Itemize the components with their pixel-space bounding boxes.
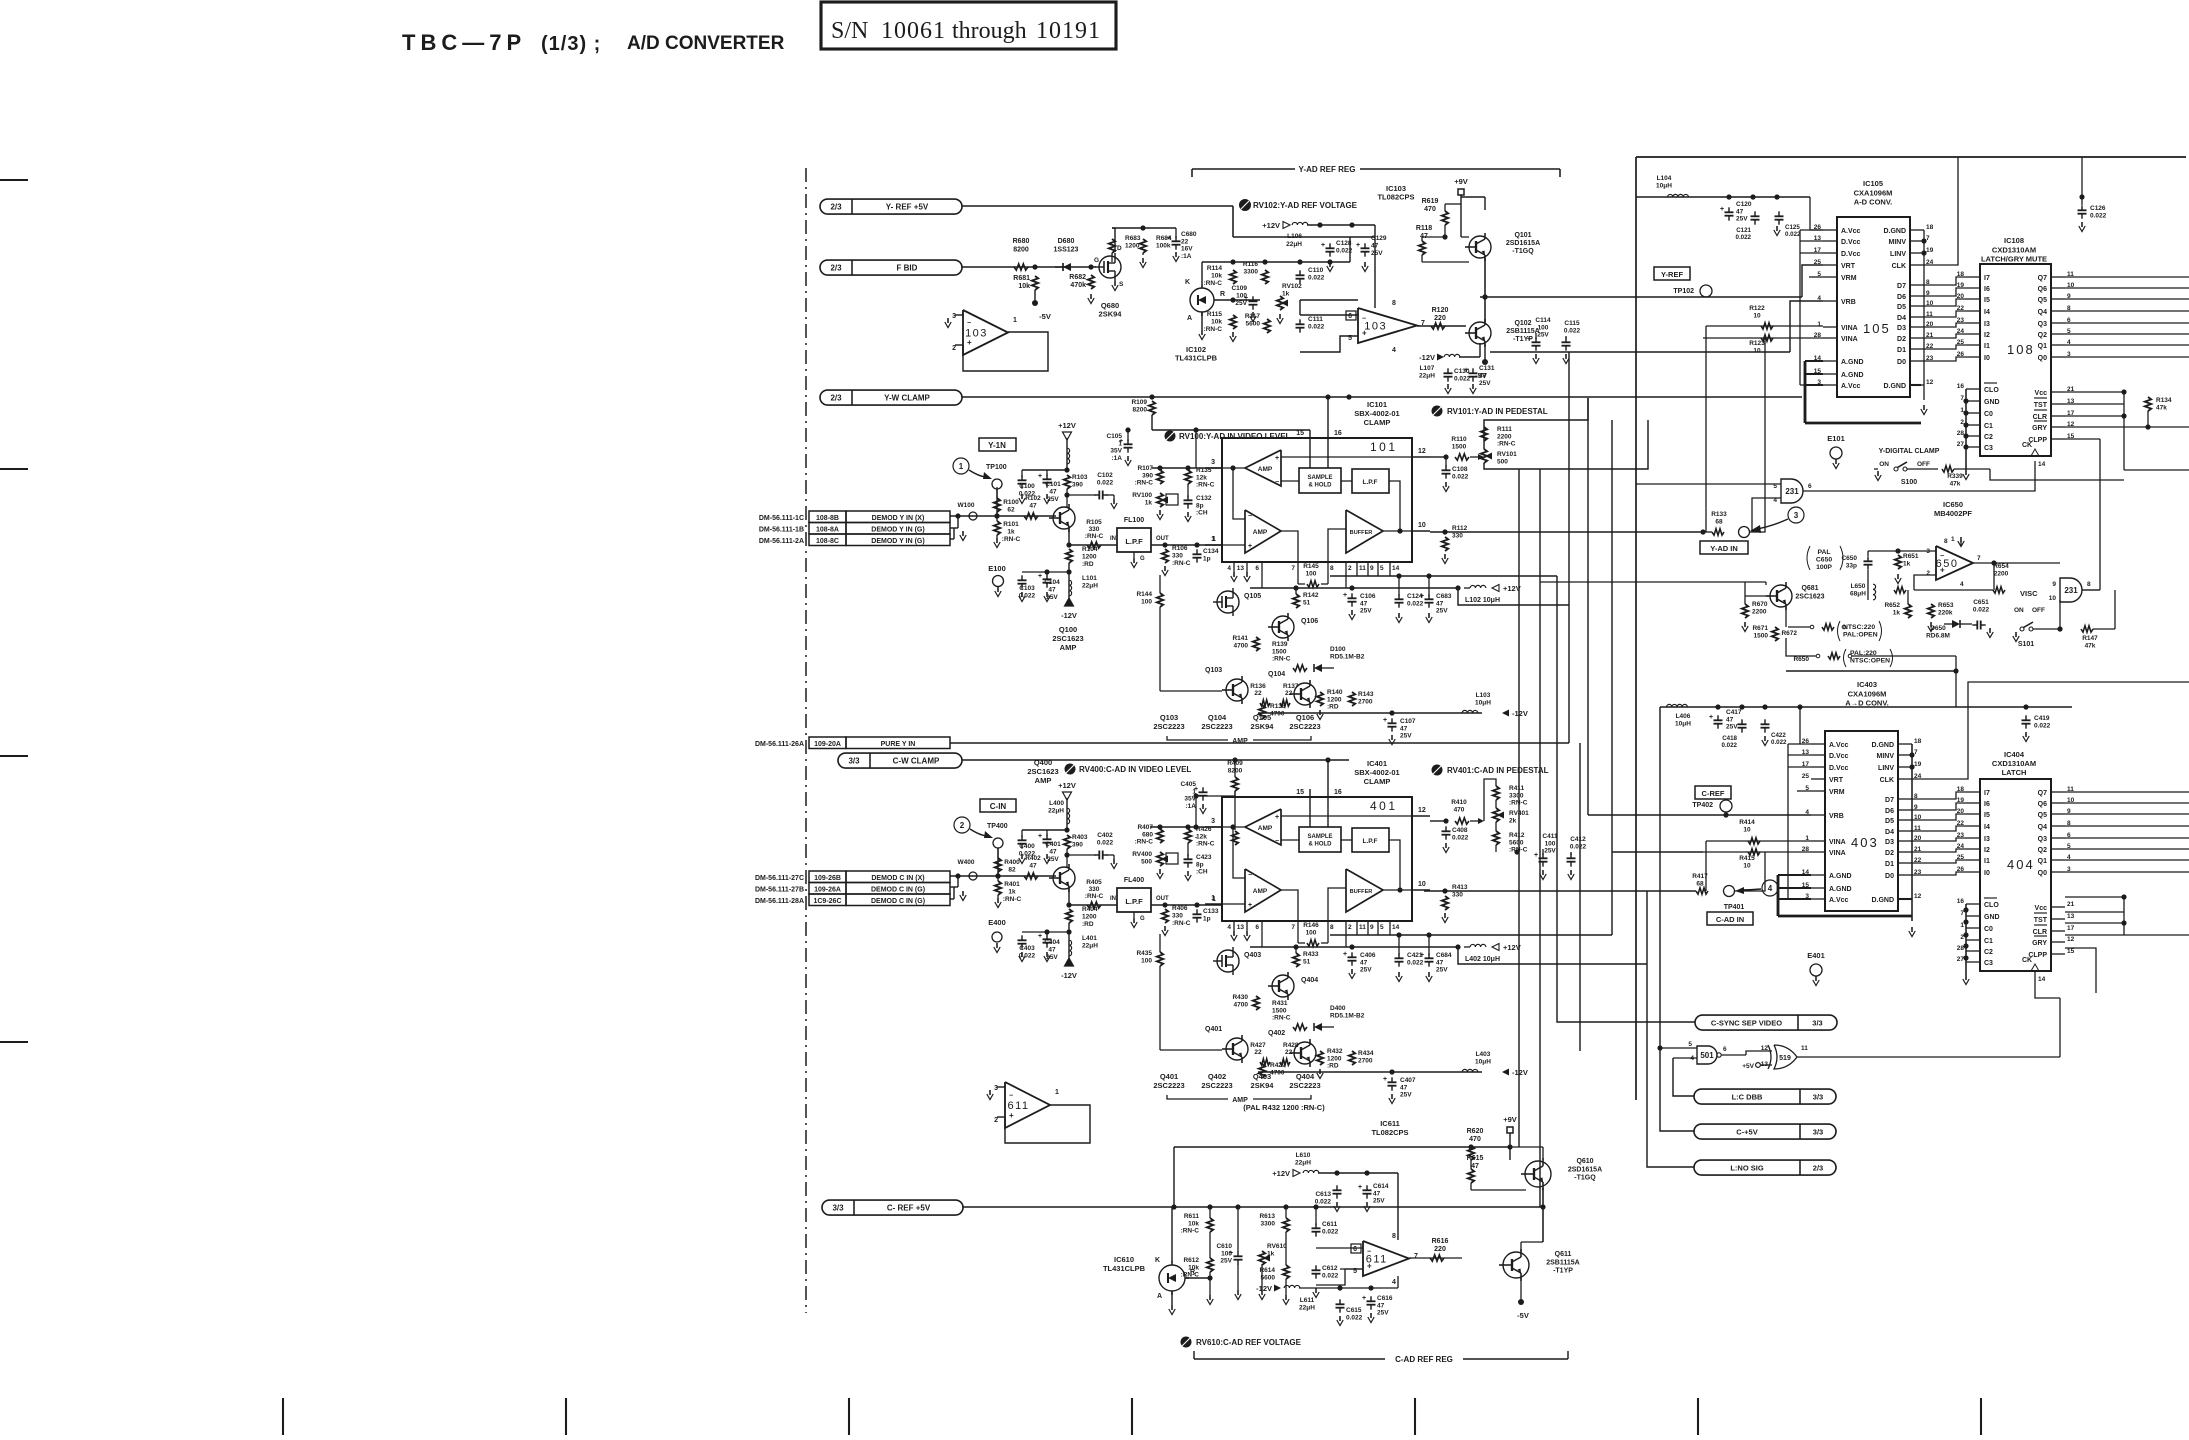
svg-text:AMP: AMP	[1253, 529, 1268, 536]
svg-text:R122: R122	[1749, 305, 1765, 312]
transistor Q610 2SD1615A	[1525, 1161, 1551, 1187]
svg-text:+: +	[1343, 951, 1347, 958]
svg-text:10k: 10k	[1018, 283, 1030, 290]
ground	[1164, 926, 1166, 931]
svg-text:D3: D3	[1885, 839, 1894, 846]
svg-text:2SC1623: 2SC1623	[1795, 594, 1824, 601]
svg-text:R144: R144	[1136, 591, 1152, 598]
svg-text:R100: R100	[1003, 499, 1019, 506]
ground	[2025, 732, 2027, 737]
resistor R615	[1468, 1169, 1474, 1183]
svg-text:3/3: 3/3	[832, 1204, 844, 1213]
svg-text::RN-C: :RN-C	[1196, 482, 1215, 489]
svg-text:25V: 25V	[1537, 332, 1549, 339]
svg-text:22: 22	[1181, 238, 1189, 245]
svg-text:VINA: VINA	[1829, 839, 1846, 846]
serial number box S/N 10061 through 10191	[821, 2, 1116, 49]
svg-text:1500: 1500	[1452, 443, 1467, 450]
ground	[1319, 710, 1321, 715]
svg-text:10k: 10k	[1211, 319, 1222, 326]
svg-text:C134: C134	[1203, 548, 1219, 555]
svg-text:C-IN: C-IN	[990, 802, 1007, 811]
svg-text:108: 108	[2007, 342, 2035, 357]
svg-text:DM-56.111-28A: DM-56.111-28A	[755, 898, 804, 905]
svg-text:I7: I7	[1984, 790, 1990, 797]
ground	[1570, 870, 1572, 875]
capacitor C134	[1193, 553, 1202, 555]
svg-text:R107: R107	[1137, 465, 1153, 472]
svg-text:I1: I1	[1984, 858, 1990, 865]
svg-text:Q3: Q3	[2038, 836, 2047, 843]
svg-text::RN-C: :RN-C	[1497, 441, 1516, 448]
connector L:NO SIG 2/3	[1694, 1160, 1836, 1175]
svg-text:DEMOD C IN (G): DEMOD C IN (G)	[871, 898, 925, 905]
wire PURE Y IN rail	[950, 742, 1569, 744]
wire data bus D7-D0	[1924, 277, 1966, 285]
svg-text:LINV: LINV	[1878, 765, 1894, 772]
svg-text:ON: ON	[2014, 607, 2024, 614]
svg-text:W400: W400	[958, 859, 975, 866]
svg-text:1p: 1p	[1203, 916, 1211, 923]
svg-text:D.GND: D.GND	[1883, 228, 1906, 235]
svg-text::RN-C: :RN-C	[1204, 326, 1223, 333]
svg-text:C- REF +5V: C- REF +5V	[887, 1204, 931, 1213]
svg-text:47: 47	[1049, 489, 1057, 496]
svg-text:C105: C105	[1106, 433, 1122, 440]
svg-text::1A: :1A	[1186, 803, 1197, 810]
svg-text:E101: E101	[1827, 434, 1845, 443]
svg-text:Q401: Q401	[1205, 1026, 1222, 1033]
ground	[1542, 870, 1544, 875]
resistor R400	[995, 858, 1001, 872]
resistor R619	[1442, 211, 1448, 225]
svg-text:+: +	[1383, 1076, 1387, 1083]
svg-text:CLR: CLR	[2033, 929, 2047, 936]
svg-text:D400: D400	[1330, 1005, 1346, 1012]
svg-text:Q402: Q402	[1268, 1030, 1285, 1037]
svg-text:3/3: 3/3	[1813, 1128, 1823, 1137]
svg-text:47k: 47k	[2085, 642, 2096, 649]
svg-text:0.022: 0.022	[1452, 473, 1469, 480]
ground	[1877, 471, 1879, 476]
svg-text:I6: I6	[1984, 286, 1990, 293]
svg-text:R120: R120	[1432, 307, 1449, 314]
svg-text:D2: D2	[1897, 336, 1906, 343]
svg-text:51: 51	[1303, 599, 1311, 606]
svg-text:-12V: -12V	[1419, 353, 1435, 362]
svg-text:8: 8	[1330, 565, 1334, 572]
svg-text:PAL:OPEN: PAL:OPEN	[1843, 632, 1878, 639]
svg-text:3: 3	[1794, 511, 1799, 520]
svg-text:109-26A: 109-26A	[814, 886, 841, 893]
ground	[1776, 226, 1778, 231]
svg-text:12: 12	[1926, 379, 1934, 386]
IC IC108 CXD1310AM latch/gray mute	[1980, 264, 2051, 456]
capacitor C611	[1312, 1227, 1321, 1229]
svg-text:CK: CK	[2022, 442, 2032, 449]
svg-text:6: 6	[1255, 924, 1259, 931]
node label Y-REF	[1654, 267, 1690, 280]
svg-text:CLK: CLK	[1892, 263, 1906, 270]
svg-text:C411: C411	[1542, 833, 1558, 840]
svg-text:Q6: Q6	[2038, 801, 2047, 808]
ground	[1444, 554, 1446, 559]
resistor R683	[1109, 239, 1115, 253]
svg-text:I1: I1	[1984, 343, 1990, 350]
wire Y-AD IN net	[1430, 531, 1700, 533]
svg-text:IC401: IC401	[1367, 759, 1387, 768]
ground	[962, 531, 964, 536]
svg-text:220: 220	[1434, 1246, 1446, 1253]
svg-text:6: 6	[1348, 313, 1352, 320]
svg-text:22: 22	[1285, 690, 1293, 697]
capacitor C105	[1124, 443, 1133, 445]
wire IC403 supply rail	[1660, 706, 2072, 708]
svg-text:2SB1115A: 2SB1115A	[1506, 328, 1539, 335]
svg-text:R612: R612	[1183, 1257, 1199, 1264]
svg-text:3/3: 3/3	[1813, 1093, 1823, 1102]
svg-text:IN: IN	[1110, 536, 1116, 542]
svg-text:RV610:C-AD REF VOLTAGE: RV610:C-AD REF VOLTAGE	[1196, 1338, 1302, 1347]
wire C-AD IN net	[1424, 890, 1696, 892]
ground	[1113, 859, 1115, 864]
capacitor C104	[1043, 578, 1052, 580]
svg-text:+12V: +12V	[1262, 221, 1280, 230]
svg-text:0.022: 0.022	[1322, 1272, 1339, 1279]
svg-text:1: 1	[1212, 896, 1216, 903]
svg-text:3: 3	[952, 313, 956, 320]
svg-text:C120: C120	[1736, 201, 1752, 208]
svg-text:D6: D6	[1885, 808, 1894, 815]
resistor R106	[1162, 549, 1168, 563]
svg-text:108-8A: 108-8A	[816, 526, 839, 533]
svg-text:2: 2	[1348, 565, 1352, 572]
ground	[1366, 1202, 1368, 1207]
svg-text:R106: R106	[1172, 545, 1188, 552]
svg-text:0.022: 0.022	[1454, 376, 1471, 383]
svg-text:+: +	[967, 338, 972, 347]
svg-text:101: 101	[1370, 440, 1398, 454]
svg-text:2SC2223: 2SC2223	[1153, 722, 1184, 731]
transistor Q106	[1272, 616, 1294, 638]
ground	[1233, 572, 1235, 577]
svg-text:D.GND: D.GND	[1883, 383, 1906, 390]
ground	[996, 943, 998, 948]
ground	[1159, 869, 1161, 874]
svg-text:A: A	[1187, 315, 1192, 322]
svg-text:A.Vcc: A.Vcc	[1841, 228, 1861, 235]
resistor R100	[994, 498, 1000, 512]
svg-text:2/3: 2/3	[830, 394, 842, 403]
svg-text:5600: 5600	[1261, 1274, 1276, 1281]
capacitor C651	[1976, 621, 1978, 630]
svg-text:1200: 1200	[1082, 554, 1097, 561]
svg-text:CXA1096M: CXA1096M	[1848, 689, 1887, 698]
ground	[1142, 258, 1144, 263]
svg-text:16: 16	[1334, 789, 1342, 796]
capacitor C129	[1361, 247, 1370, 249]
svg-text:0.022: 0.022	[1336, 248, 1353, 255]
svg-text::RN-C: :RN-C	[1172, 560, 1191, 567]
svg-text:27: 27	[1957, 956, 1965, 963]
svg-text::RD: :RD	[1327, 704, 1339, 711]
ground	[1428, 972, 1430, 977]
svg-text:RD5.1M-B2: RD5.1M-B2	[1330, 1012, 1365, 1019]
svg-text:L610: L610	[1296, 1152, 1311, 1159]
ground	[1336, 1202, 1338, 1207]
svg-text:L402 10μH: L402 10μH	[1465, 956, 1500, 963]
callout circle 1	[953, 458, 969, 474]
transistor Q611 2SB1115A	[1503, 1252, 1529, 1278]
svg-text:0.022: 0.022	[2090, 212, 2107, 219]
capacitor C408	[1442, 830, 1451, 832]
svg-text:(PAL R432 1200 :RN-C): (PAL R432 1200 :RN-C)	[1243, 1103, 1325, 1112]
svg-text:I5: I5	[1984, 297, 1990, 304]
svg-text::CH: :CH	[1196, 869, 1208, 876]
svg-text:AMP: AMP	[1258, 825, 1273, 832]
svg-text:RV400:C-AD IN VIDEO LEVEL: RV400:C-AD IN VIDEO LEVEL	[1079, 765, 1191, 774]
svg-text:C108: C108	[1452, 466, 1468, 473]
ground	[1127, 456, 1129, 461]
svg-text:+: +	[1362, 328, 1367, 337]
ground	[1090, 294, 1092, 299]
resistor R681	[1032, 276, 1038, 290]
svg-text:R427: R427	[1250, 1042, 1266, 1049]
svg-text:2SC1623: 2SC1623	[1027, 767, 1058, 776]
svg-text:RV100:Y-AD IN VIDEO LEVEL: RV100:Y-AD IN VIDEO LEVEL	[1179, 432, 1291, 441]
svg-text:A: A	[1157, 1293, 1162, 1300]
svg-text:10μH: 10μH	[1475, 699, 1491, 706]
svg-text:LATCH/GRY MUTE: LATCH/GRY MUTE	[1981, 255, 2047, 264]
svg-text:NTSC:OPEN: NTSC:OPEN	[1850, 658, 1890, 665]
svg-text:47: 47	[1400, 1084, 1408, 1091]
svg-text:1k: 1k	[1267, 1250, 1275, 1257]
ground	[1815, 976, 1817, 981]
svg-text:390: 390	[1072, 482, 1083, 489]
svg-text:1p: 1p	[1203, 556, 1211, 563]
svg-text:−: −	[1275, 838, 1279, 845]
svg-text:A.GND: A.GND	[1841, 359, 1864, 366]
svg-text:R653: R653	[1938, 602, 1954, 609]
svg-text:10: 10	[1753, 312, 1761, 319]
svg-text:100: 100	[1545, 840, 1556, 847]
svg-text:R611: R611	[1184, 1213, 1200, 1220]
svg-text:8p: 8p	[1196, 502, 1204, 509]
svg-text:100: 100	[1141, 957, 1152, 964]
svg-text:2700: 2700	[1358, 698, 1373, 705]
resistor R406	[1162, 909, 1168, 923]
svg-text:R133: R133	[1711, 511, 1727, 518]
svg-text:4700: 4700	[1234, 1001, 1249, 1008]
svg-text:12: 12	[1914, 893, 1922, 900]
svg-text:Q105: Q105	[1253, 713, 1271, 722]
svg-text:TL082CPS: TL082CPS	[1377, 193, 1414, 202]
svg-text:TST: TST	[2034, 402, 2048, 409]
svg-text:330: 330	[1172, 553, 1183, 560]
svg-text:−: −	[1367, 1248, 1371, 1255]
resistor R427	[1260, 1059, 1270, 1065]
wire C-W CLAMP rail	[962, 759, 1349, 761]
svg-text:10: 10	[1743, 826, 1751, 833]
svg-text:17: 17	[2067, 925, 2075, 932]
svg-text:MINV: MINV	[1889, 239, 1907, 246]
svg-text:8: 8	[1392, 300, 1396, 307]
svg-text:1k: 1k	[1282, 291, 1290, 298]
svg-text:Q400: Q400	[1034, 758, 1052, 767]
resistor R403	[1064, 835, 1070, 849]
resistor R115	[1230, 315, 1236, 329]
svg-text:GRY: GRY	[2032, 425, 2047, 432]
svg-text:0.022: 0.022	[1308, 324, 1325, 331]
capacitor C106	[1348, 597, 1357, 599]
svg-text:+: +	[1527, 336, 1531, 343]
svg-text:TBC—7P: TBC—7P	[402, 30, 526, 55]
svg-text:47: 47	[1048, 947, 1056, 954]
svg-text:-5V: -5V	[1517, 1311, 1529, 1320]
svg-text:25V: 25V	[1436, 608, 1448, 615]
svg-text:RV610: RV610	[1267, 1243, 1287, 1250]
resistor R616	[1430, 1255, 1444, 1261]
svg-text:R650: R650	[1793, 656, 1809, 663]
capacitor C650	[1864, 560, 1873, 562]
transistor Q681 2SC1623	[1770, 585, 1792, 607]
svg-text:D4: D4	[1897, 315, 1906, 322]
svg-text:C133: C133	[1203, 908, 1219, 915]
svg-text:2200: 2200	[1994, 570, 2009, 577]
ground	[996, 538, 998, 543]
svg-text:R426: R426	[1196, 826, 1212, 833]
svg-text::1A: :1A	[1181, 253, 1192, 260]
svg-text:DM-56.111-27B: DM-56.111-27B	[755, 887, 804, 894]
svg-text:R139: R139	[1272, 641, 1288, 648]
wire data bus D7-D0	[1912, 792, 1966, 799]
gate 231 unit B	[2060, 578, 2082, 602]
svg-text:D650: D650	[1930, 625, 1946, 632]
svg-text:Q5: Q5	[2038, 297, 2047, 304]
transistor Q100 2SC1623	[1053, 507, 1075, 529]
svg-text:C403: C403	[1019, 945, 1035, 952]
svg-text:231: 231	[2064, 586, 2078, 595]
svg-text:2SC1623: 2SC1623	[1052, 634, 1083, 643]
svg-text:25V: 25V	[1235, 300, 1247, 307]
svg-text:231: 231	[1785, 487, 1799, 496]
ground	[1113, 499, 1115, 504]
svg-text:9: 9	[1370, 924, 1374, 931]
svg-text:R411: R411	[1509, 785, 1525, 792]
svg-text:R680: R680	[1013, 238, 1030, 245]
svg-text:C2: C2	[1984, 949, 1993, 956]
svg-text:S100: S100	[1901, 479, 1917, 486]
svg-text:22μH: 22μH	[1419, 373, 1435, 380]
resistor R652	[1905, 604, 1911, 618]
svg-text:10μH: 10μH	[1675, 720, 1691, 727]
svg-text:D0: D0	[1897, 359, 1906, 366]
svg-text:1: 1	[1211, 536, 1215, 543]
svg-text:2200: 2200	[1752, 608, 1767, 615]
svg-text:19: 19	[1926, 247, 1934, 254]
capacitor C684	[1425, 957, 1434, 959]
svg-text:RV100: RV100	[1132, 492, 1152, 499]
svg-text:I4: I4	[1984, 309, 1990, 316]
capacitor C131	[1469, 372, 1478, 374]
svg-text:Q105: Q105	[1244, 593, 1261, 600]
svg-text:47: 47	[1029, 503, 1037, 510]
svg-text:-T1GQ: -T1GQ	[1574, 1175, 1596, 1182]
svg-text:100: 100	[1236, 293, 1247, 300]
svg-text:220k: 220k	[1938, 609, 1953, 616]
svg-text:+9V: +9V	[1503, 1115, 1517, 1124]
svg-text:103: 103	[1364, 321, 1387, 333]
svg-text:A.GND: A.GND	[1841, 372, 1864, 379]
svg-text:5: 5	[1688, 1041, 1692, 1048]
ground	[1447, 384, 1449, 389]
capacitor C423	[1184, 858, 1193, 860]
svg-text:D1: D1	[1885, 861, 1894, 868]
svg-text:519: 519	[1779, 1055, 1791, 1062]
svg-text:VINA: VINA	[1841, 336, 1858, 343]
resistor R140	[1317, 692, 1323, 706]
resistor R136	[1260, 700, 1270, 706]
ground	[1246, 931, 1248, 936]
capacitor C401	[1043, 838, 1052, 840]
svg-text:TP402: TP402	[1692, 802, 1713, 809]
wire data bus Q7-Q0 to next sheet	[2065, 276, 2189, 278]
transistor Q402	[1294, 1042, 1316, 1064]
transistor Q400 2SC1623	[1053, 867, 1075, 889]
capacitor C404	[1043, 938, 1052, 940]
capacitor C109	[1249, 300, 1258, 302]
resistor R405	[1087, 902, 1101, 908]
svg-text::RN-C: :RN-C	[1135, 480, 1154, 487]
svg-text:R147: R147	[2082, 635, 2098, 642]
resistor R135	[1185, 470, 1191, 484]
svg-text:0.022: 0.022	[1322, 1228, 1339, 1235]
svg-text:1: 1	[1055, 1089, 1059, 1096]
svg-text:6: 6	[1255, 565, 1259, 572]
ground	[997, 587, 999, 592]
resistor R429	[1259, 1064, 1265, 1078]
svg-text:I3: I3	[1984, 321, 1990, 328]
svg-text:L611: L611	[1300, 1297, 1315, 1304]
capacitor C613	[1333, 1189, 1342, 1191]
svg-text:DM-56.111-1C: DM-56.111-1C	[759, 515, 804, 522]
wire Y-W CLAMP rail	[962, 396, 1802, 398]
svg-text::RN-C: :RN-C	[1085, 533, 1104, 540]
ground	[1171, 1305, 1173, 1310]
svg-text:L101: L101	[1082, 575, 1097, 582]
ground	[1897, 574, 1899, 579]
svg-text:0.022: 0.022	[1097, 840, 1114, 847]
svg-text:0.022: 0.022	[1097, 480, 1114, 487]
svg-text:RD6.8M: RD6.8M	[1926, 632, 1950, 639]
svg-text:D: D	[1117, 245, 1122, 252]
svg-text:680: 680	[1142, 831, 1153, 838]
svg-text:C1: C1	[1984, 938, 1993, 945]
svg-text:D.Vcc: D.Vcc	[1829, 765, 1849, 772]
ground	[1764, 736, 1766, 741]
ground	[1209, 1295, 1211, 1300]
svg-text:-5V: -5V	[1475, 371, 1487, 380]
svg-text:12k: 12k	[1196, 474, 1207, 481]
svg-text:MINV: MINV	[1877, 753, 1895, 760]
svg-text:I0: I0	[1984, 355, 1990, 362]
ground	[1202, 804, 1204, 809]
ground	[1237, 1290, 1239, 1295]
svg-text:1: 1	[1817, 321, 1821, 328]
svg-text:Vcc: Vcc	[2035, 905, 2048, 912]
svg-text:330: 330	[1089, 526, 1100, 533]
svg-text:A-D CONV.: A-D CONV.	[1854, 198, 1892, 207]
